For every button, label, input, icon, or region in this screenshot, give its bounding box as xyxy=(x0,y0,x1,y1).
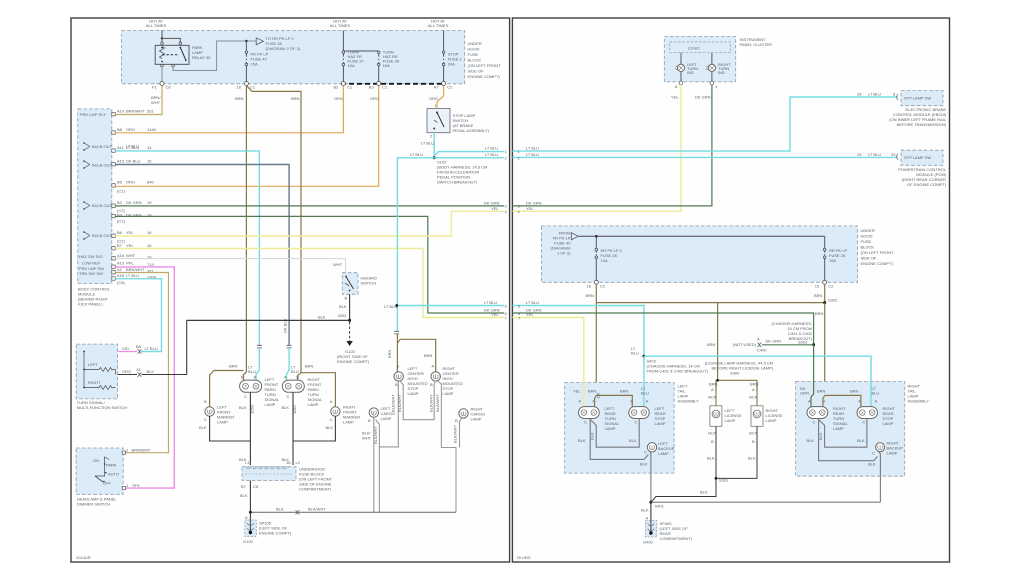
wire BLK left license ground xyxy=(715,426,717,478)
svg-text:HOOD: HOOD xyxy=(861,234,873,239)
svg-text:COMPARTMENT): COMPARTMENT) xyxy=(299,487,332,492)
triangle to rr pk lp 2 fuse 28 xyxy=(256,38,263,45)
svg-text:A: A xyxy=(432,364,435,369)
svg-text:A: A xyxy=(757,337,760,342)
svg-text:G400: G400 xyxy=(643,540,654,545)
wire DK GRN 19 BCM B2 line 3 xyxy=(115,205,504,207)
svg-text:TRN SIG SW: TRN SIG SW xyxy=(79,271,103,276)
svg-text:A13: A13 xyxy=(117,261,125,266)
fuse RR PK LP fuse 26 xyxy=(824,236,826,248)
park lamp relay 30 xyxy=(155,45,189,64)
svg-text:BULB OUT: BULB OUT xyxy=(92,203,113,208)
BCM pin squares xyxy=(112,113,115,281)
svg-text:16: 16 xyxy=(286,460,291,465)
wire BLK right backup ground down xyxy=(879,451,881,502)
left rear turn signal lamp xyxy=(579,407,600,419)
line 5 LT BLU to rear xyxy=(397,305,504,307)
svg-text:ENGINE COMPT): ENGINE COMPT) xyxy=(337,359,370,364)
svg-text:WHT: WHT xyxy=(333,262,343,267)
svg-text:PEDAL ASSEMBLY): PEDAL ASSEMBLY) xyxy=(453,128,490,133)
wire VIO multifunction out xyxy=(118,351,137,353)
svg-text:COMPARTMENT): COMPARTMENT) xyxy=(660,536,693,541)
inline connector row1 xyxy=(138,349,142,353)
svg-text:ORG: ORG xyxy=(126,180,135,185)
svg-text:C: C xyxy=(204,417,207,422)
svg-text:STP LAMP SW: STP LAMP SW xyxy=(904,155,931,160)
wire LT BLU line 1 to EBCM xyxy=(512,97,898,151)
PCM box xyxy=(901,150,943,165)
svg-text:BLK: BLK xyxy=(807,438,815,443)
svg-text:BLK: BLK xyxy=(578,438,586,443)
svg-text:B7: B7 xyxy=(117,243,123,248)
svg-text:DK GRN: DK GRN xyxy=(766,339,782,344)
svg-text:LAMP: LAMP xyxy=(471,417,482,422)
svg-text:BLK: BLK xyxy=(276,507,284,512)
wire BRN fuse 28 down and across xyxy=(596,284,824,400)
splice pack P400 grommet xyxy=(645,521,657,538)
svg-text:3002: 3002 xyxy=(338,313,348,318)
svg-text:B: B xyxy=(368,418,371,423)
svg-text:BULB OUT: BULB OUT xyxy=(92,233,113,238)
svg-text:LT BLU: LT BLU xyxy=(526,300,539,305)
svg-text:BLOCK: BLOCK xyxy=(861,245,875,250)
svg-text:A: A xyxy=(579,399,582,404)
svg-text:B: B xyxy=(430,382,433,387)
svg-text:C2: C2 xyxy=(600,284,606,289)
svg-text:BRN: BRN xyxy=(620,389,629,394)
svg-text:BLK: BLK xyxy=(629,438,637,443)
body control module box xyxy=(78,109,112,284)
svg-text:(DIAGRAM 2 OF 2): (DIAGRAM 2 OF 2) xyxy=(266,46,301,51)
svg-text:STP LAMP SW: STP LAMP SW xyxy=(904,96,931,101)
svg-text:YEL: YEL xyxy=(526,312,534,317)
svg-text:16: 16 xyxy=(147,230,152,235)
svg-text:1150: 1150 xyxy=(292,405,297,414)
svg-text:33: 33 xyxy=(891,152,896,157)
svg-text:1 OF 2): 1 OF 2) xyxy=(557,251,571,256)
node S401 xyxy=(649,501,652,504)
svg-text:A: A xyxy=(397,364,400,369)
left license lamp xyxy=(710,406,722,427)
wire LT BLU below connector to right lamp xyxy=(287,348,290,381)
svg-text:G100: G100 xyxy=(243,539,254,544)
svg-text:1050: 1050 xyxy=(249,404,254,414)
node above fuse 40 xyxy=(245,40,247,42)
svg-text:S301: S301 xyxy=(719,478,729,483)
svg-text:C: C xyxy=(872,451,875,456)
svg-text:BRN/WHT: BRN/WHT xyxy=(126,109,145,114)
svg-text:A15: A15 xyxy=(117,159,125,164)
right center high mounted stop lamp xyxy=(431,372,440,381)
svg-text:LT BLU: LT BLU xyxy=(485,152,498,157)
svg-text:BRN: BRN xyxy=(387,349,392,358)
svg-text:LT BLU: LT BLU xyxy=(126,273,139,278)
node S302 xyxy=(823,301,826,304)
svg-text:LEFT: LEFT xyxy=(88,362,98,367)
svg-text:BRN: BRN xyxy=(235,96,244,101)
wire BRN/WHT 351 BCM A2 to headlamp switch xyxy=(115,273,168,453)
wire LT BLU line 5 to S403 xyxy=(512,306,644,357)
resistor left xyxy=(99,368,112,372)
svg-text:B: B xyxy=(711,439,714,444)
wire YEL cluster to line 4 xyxy=(512,85,681,212)
relay bottom pins xyxy=(161,64,164,67)
svg-text:UNDER: UNDER xyxy=(861,228,875,233)
svg-text:29: 29 xyxy=(857,92,862,97)
svg-text:C1: C1 xyxy=(347,85,353,90)
wire BLK splice down to grommet xyxy=(650,502,652,520)
feed bus from triangle xyxy=(578,235,825,237)
right cargo lamp xyxy=(459,409,468,418)
wire BRN branch to right center stop lamp xyxy=(397,339,435,371)
svg-text:19: 19 xyxy=(147,200,152,205)
svg-text:DK BLU: DK BLU xyxy=(126,159,141,164)
wire LT BLU 1008 BCM A18 to multifunction switch xyxy=(115,279,161,352)
left cargo lamp xyxy=(369,408,378,417)
left tail lamp assembly box xyxy=(565,383,674,474)
wire DK GRN 19 BCM B3 to line 6 xyxy=(115,216,504,313)
svg-text:A: A xyxy=(752,387,755,392)
svg-text:BLK: BLK xyxy=(707,456,715,461)
svg-text:18: 18 xyxy=(136,367,141,372)
svg-text:A: A xyxy=(875,399,878,404)
svg-text:BLK/WHT: BLK/WHT xyxy=(397,394,402,412)
svg-text:BULB OUT: BULB OUT xyxy=(92,144,113,149)
svg-text:HAZ SW SIG: HAZ SW SIG xyxy=(79,254,103,259)
svg-text:LAMP: LAMP xyxy=(655,421,666,426)
ground bus to right backup xyxy=(651,501,881,503)
svg-text:PPL: PPL xyxy=(126,261,134,266)
wire LT BLU S403 to right stop lamp xyxy=(644,356,871,406)
wire YEL 16 BCM B6 line 4 from jog xyxy=(115,211,504,236)
svg-text:LAMP: LAMP xyxy=(725,418,736,423)
svg-text:1440: 1440 xyxy=(147,127,157,132)
logic box xyxy=(670,42,731,53)
svg-text:C: C xyxy=(863,420,866,425)
svg-text:10A: 10A xyxy=(348,63,355,68)
wire LT BLU line 1 to EBCM xyxy=(434,152,504,156)
svg-text:BLK: BLK xyxy=(700,490,708,495)
svg-text:BRN: BRN xyxy=(817,389,826,394)
svg-text:YEL: YEL xyxy=(126,230,134,235)
wire BRN branch right to marker xyxy=(301,373,335,407)
svg-text:B: B xyxy=(241,375,244,380)
svg-text:LAMP: LAMP xyxy=(443,391,454,396)
connector on left lamp drop xyxy=(257,345,262,348)
svg-text:SIDE OF: SIDE OF xyxy=(861,256,878,261)
svg-text:BLK: BLK xyxy=(339,304,347,309)
svg-text:F1: F1 xyxy=(152,85,157,90)
wire DK GRN cluster to line 3 xyxy=(512,85,712,206)
svg-text:A: A xyxy=(711,387,714,392)
right backup lamp xyxy=(876,443,885,452)
svg-text:ALL TIMES: ALL TIMES xyxy=(146,23,167,28)
left panel frame xyxy=(71,18,510,562)
wire BLK/WHT left cargo ground xyxy=(373,417,375,512)
svg-text:BLK: BLK xyxy=(282,405,290,410)
feed fuse 37/28 xyxy=(343,31,378,52)
svg-text:B2: B2 xyxy=(117,200,123,205)
svg-text:PARK: PARK xyxy=(106,463,117,468)
wire BLK multifunction to hazard node bus xyxy=(142,320,187,374)
wire BRN right license into lamp xyxy=(756,382,758,406)
svg-text:ON: ON xyxy=(93,458,99,463)
svg-text:B: B xyxy=(345,296,348,301)
wire BLK/WHT right cargo ground xyxy=(460,418,463,448)
svg-text:BEFORE RIGHT LICENSE LAMP): BEFORE RIGHT LICENSE LAMP) xyxy=(712,366,774,371)
fuse block bottom pins xyxy=(594,280,598,284)
wire ORG stop fuse 1 to stop lamp switch xyxy=(437,86,444,109)
svg-text:SWITCH: SWITCH xyxy=(361,281,377,286)
right turn indicator xyxy=(711,53,713,82)
wire BRN fuse 26 down to S302 xyxy=(824,284,826,302)
wire BLK right turn C ground xyxy=(819,419,878,461)
svg-text:HOOD: HOOD xyxy=(468,47,480,52)
svg-text:PPL: PPL xyxy=(133,483,141,488)
svg-text:C: C xyxy=(244,394,247,399)
svg-text:DK GRN: DK GRN xyxy=(126,200,142,205)
svg-text:(ON LEFT FRONT: (ON LEFT FRONT xyxy=(468,63,502,68)
svg-text:20 URS: 20 URS xyxy=(517,555,531,560)
not used connector xyxy=(758,343,762,347)
connector C2 heavy dashed run on bottom edge xyxy=(341,83,444,85)
wire BRN/WHT 351 BCM A10 to fuse F1 xyxy=(115,86,162,115)
svg-text:(C1): (C1) xyxy=(117,189,125,194)
svg-text:BLK: BLK xyxy=(857,438,865,443)
node S-ground hazard xyxy=(348,319,351,322)
svg-text:BLK/WHT: BLK/WHT xyxy=(390,394,395,412)
B+ feed into relay xyxy=(161,31,163,39)
svg-text:BRN: BRN xyxy=(291,96,300,101)
svg-text:BLK/WHT: BLK/WHT xyxy=(373,426,378,444)
wire BLK left backup ground down xyxy=(649,452,652,503)
ground lead G103 xyxy=(349,322,351,341)
wire BLK right stop C ground loop xyxy=(819,419,867,448)
instrument panel cluster box xyxy=(664,37,735,82)
svg-text:ENGINE COMPT): ENGINE COMPT) xyxy=(861,261,894,266)
svg-text:A18: A18 xyxy=(117,273,125,278)
node S301 xyxy=(715,477,718,480)
svg-text:B3: B3 xyxy=(369,85,375,90)
svg-text:15A: 15A xyxy=(829,258,836,263)
wire BLK left stop C ground loop xyxy=(590,419,639,448)
svg-text:C1: C1 xyxy=(250,85,256,90)
svg-text:LT BLU: LT BLU xyxy=(126,144,139,149)
svg-text:A: A xyxy=(646,399,649,404)
wire BRN fuse 40 to front lamps xyxy=(245,86,247,373)
svg-text:B6: B6 xyxy=(117,230,123,235)
wire BRN left license into lamp xyxy=(715,382,717,406)
svg-text:LT BLU: LT BLU xyxy=(868,92,881,97)
svg-text:A: A xyxy=(284,375,287,380)
wire relay to F1 pin xyxy=(161,67,163,82)
svg-text:S303: S303 xyxy=(798,340,808,345)
right rear stop lamp xyxy=(857,407,877,419)
svg-text:S302: S302 xyxy=(828,298,838,303)
svg-text:ORG: ORG xyxy=(122,369,131,374)
wire LT BLU S403 to left stop lamp xyxy=(643,356,645,406)
svg-text:AUTO: AUTO xyxy=(108,472,119,477)
wire BRN into right lamp pin B xyxy=(298,373,302,381)
connector on stop lamp feed xyxy=(394,331,399,334)
wire BLK/WHT inner loop between stop lamps xyxy=(400,381,435,420)
svg-text:LAMP: LAMP xyxy=(658,451,669,456)
svg-text:BRN: BRN xyxy=(750,382,759,387)
svg-text:A10: A10 xyxy=(117,109,125,114)
svg-text:LAMP: LAMP xyxy=(766,418,777,423)
svg-text:LAMP: LAMP xyxy=(883,421,894,426)
wire BLK left turn C ground xyxy=(590,419,648,460)
wire BLK left lamp C to fuse block xyxy=(249,392,251,465)
svg-text:ORG: ORG xyxy=(126,127,135,132)
left center high mounted stop lamp xyxy=(394,372,403,381)
svg-text:BRN: BRN xyxy=(586,293,595,298)
svg-text:B: B xyxy=(455,418,458,423)
svg-text:BLU: BLU xyxy=(291,369,299,374)
svg-text:BLK/WHT: BLK/WHT xyxy=(308,507,326,512)
feed stop fuse 1 xyxy=(443,31,445,52)
fuse turn haz rr fuse 28 xyxy=(377,51,380,54)
svg-text:DK GRN: DK GRN xyxy=(695,95,711,100)
svg-text:FUSE: FUSE xyxy=(861,239,872,244)
svg-text:C: C xyxy=(584,420,587,425)
svg-text:PANEL CLUSTER: PANEL CLUSTER xyxy=(740,42,773,47)
stop lamp switch xyxy=(427,109,450,133)
resistor right xyxy=(99,386,112,390)
svg-text:14: 14 xyxy=(147,145,152,150)
svg-text:115: 115 xyxy=(596,392,601,399)
wire BRN license drop xyxy=(717,303,719,381)
svg-text:IND: IND xyxy=(718,70,725,75)
svg-text:BRN/WHT: BRN/WHT xyxy=(132,448,151,453)
bulb out driver 2 xyxy=(84,161,90,168)
svg-text:B: B xyxy=(395,382,398,387)
node above fuse 28-2 xyxy=(595,235,598,238)
svg-text:BRN: BRN xyxy=(815,311,824,316)
svg-text:LAMP: LAMP xyxy=(343,420,354,425)
wire BLK license grounds to main splice xyxy=(651,478,716,502)
svg-text:LT BLU: LT BLU xyxy=(868,152,881,157)
svg-text:C2: C2 xyxy=(828,284,834,289)
svg-text:B5: B5 xyxy=(117,180,123,185)
svg-text:BLU: BLU xyxy=(641,391,649,396)
svg-text:BLOCK: BLOCK xyxy=(468,58,482,63)
svg-text:C: C xyxy=(287,394,290,399)
node S303 xyxy=(812,343,815,346)
fuse turn haz fr fuse 37 xyxy=(342,51,345,54)
svg-text:A7: A7 xyxy=(434,85,440,90)
svg-text:LAMP: LAMP xyxy=(265,402,276,407)
left turn indicator xyxy=(680,53,682,82)
svg-text:BEFORE TRANSMISSION): BEFORE TRANSMISSION) xyxy=(897,122,947,127)
svg-text:C: C xyxy=(644,450,647,455)
svg-text:A: A xyxy=(330,399,333,404)
svg-text:NCA: NCA xyxy=(749,431,758,436)
svg-text:FROM C401 & C402 BREAKOUT): FROM C401 & C402 BREAKOUT) xyxy=(647,369,709,374)
svg-text:B8: B8 xyxy=(136,344,142,349)
svg-text:BRN: BRN xyxy=(424,353,433,358)
svg-text:KICK PANEL): KICK PANEL) xyxy=(78,302,103,307)
svg-text:B7: B7 xyxy=(241,484,247,489)
wire DK BLU 15 BCM A15 to right front lamp xyxy=(115,165,289,346)
svg-text:C1: C1 xyxy=(382,85,388,90)
svg-text:B8: B8 xyxy=(117,127,123,132)
wire BLK right marker ground xyxy=(293,416,335,441)
svg-text:20A: 20A xyxy=(448,62,455,67)
svg-text:C400: C400 xyxy=(757,348,767,353)
left front marker lamp xyxy=(205,407,214,416)
wire YEL 16 BCM B7 to line 7 xyxy=(115,249,504,318)
switch internals xyxy=(84,352,115,388)
wire LT BLU switch to S102 xyxy=(433,133,435,158)
svg-text:BRN: BRN xyxy=(709,382,718,387)
svg-text:BLK: BLK xyxy=(641,508,649,513)
svg-text:A11: A11 xyxy=(117,145,125,150)
svg-text:LAMP: LAMP xyxy=(605,426,616,431)
svg-text:S401: S401 xyxy=(655,504,665,509)
svg-text:ORG: ORG xyxy=(370,96,379,101)
svg-text:WHT: WHT xyxy=(126,253,136,258)
svg-text:YEL: YEL xyxy=(126,243,134,248)
fuse RR PK LP 2 fuse 28 xyxy=(595,236,597,248)
svg-text:16: 16 xyxy=(147,243,152,248)
hazard switch box xyxy=(342,273,358,295)
wire BLK hazard to node xyxy=(349,294,351,320)
svg-text:15: 15 xyxy=(147,159,152,164)
svg-text:C: C xyxy=(813,420,816,425)
svg-text:BLK: BLK xyxy=(868,462,876,467)
svg-text:OF ENGINE COMPT): OF ENGINE COMPT) xyxy=(907,182,947,187)
svg-text:B: B xyxy=(297,375,300,380)
svg-text:BLU: BLU xyxy=(248,369,256,374)
wire BLK fuse block down to splice xyxy=(249,481,251,513)
wire BLK/WHT left stop lamp ground xyxy=(379,381,398,512)
bottom edge pins of fuse block xyxy=(160,82,164,86)
svg-text:A: A xyxy=(254,375,257,380)
wire BRN into left tail (split) xyxy=(595,395,633,406)
svg-text:BLK: BLK xyxy=(199,425,207,430)
svg-text:A: A xyxy=(808,399,811,404)
svg-text:16: 16 xyxy=(587,284,592,289)
svg-text:BULB OUT: BULB OUT xyxy=(92,163,113,168)
svg-text:840: 840 xyxy=(147,180,154,185)
svg-text:BLK: BLK xyxy=(239,405,247,410)
wire DK GRN line 6 to S303 xyxy=(512,313,813,345)
turn signal multifunction switch box xyxy=(76,344,117,399)
underhood fuse block (ground bus) box xyxy=(242,467,296,481)
svg-text:B: B xyxy=(204,399,207,404)
svg-text:LAMP: LAMP xyxy=(408,391,419,396)
right front marker lamp xyxy=(331,407,340,416)
svg-text:YEL: YEL xyxy=(573,389,581,394)
inline connector row2 xyxy=(138,372,142,376)
svg-text:YEL: YEL xyxy=(526,206,534,211)
svg-text:ALL TIMES: ALL TIMES xyxy=(330,23,351,28)
left backup lamp xyxy=(647,443,656,452)
svg-text:SWITCH BREAKOUT): SWITCH BREAKOUT) xyxy=(437,180,478,185)
svg-text:IND: IND xyxy=(687,70,694,75)
svg-text:DK GRN: DK GRN xyxy=(526,200,542,205)
svg-text:C2: C2 xyxy=(447,85,453,90)
svg-text:BRN: BRN xyxy=(305,364,314,369)
svg-text:LT BLU: LT BLU xyxy=(145,346,158,351)
right front park/turn signal lamp xyxy=(282,375,304,399)
svg-text:(C8): (C8) xyxy=(117,280,125,285)
wire YEL line 7 to left tail lamp xyxy=(512,318,583,407)
svg-text:15A: 15A xyxy=(251,62,258,67)
svg-text:BRN: BRN xyxy=(850,389,859,394)
wire ORG 840 BCM B5 to fuse 28 xyxy=(115,86,379,187)
